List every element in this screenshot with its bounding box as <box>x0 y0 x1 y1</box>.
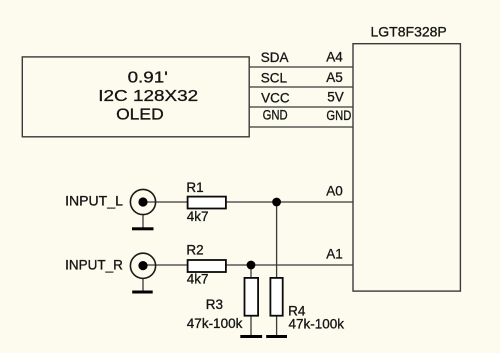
svg-text:A5: A5 <box>326 70 343 85</box>
svg-text:R1: R1 <box>186 180 203 195</box>
svg-text:SDA: SDA <box>261 50 289 65</box>
svg-text:LGT8F328P: LGT8F328P <box>371 24 447 40</box>
svg-text:5V: 5V <box>327 90 344 105</box>
svg-text:R2: R2 <box>186 243 203 258</box>
svg-text:VCC: VCC <box>261 90 290 105</box>
svg-text:GND: GND <box>326 108 351 123</box>
svg-text:INPUT_L: INPUT_L <box>65 194 123 209</box>
svg-text:A0: A0 <box>326 183 343 198</box>
svg-text:A1: A1 <box>326 247 343 262</box>
svg-text:47k-100k: 47k-100k <box>289 317 345 332</box>
svg-text:SCL: SCL <box>261 71 288 86</box>
svg-text:4k7: 4k7 <box>187 271 209 286</box>
svg-text:4k7: 4k7 <box>187 209 209 224</box>
svg-text:A4: A4 <box>326 50 343 65</box>
svg-text:OLED: OLED <box>116 107 164 124</box>
svg-text:INPUT_R: INPUT_R <box>65 257 123 272</box>
svg-text:R3: R3 <box>206 297 223 312</box>
svg-text:0.91': 0.91' <box>128 69 168 86</box>
svg-text:GND: GND <box>263 108 288 123</box>
svg-text:47k-100k: 47k-100k <box>187 316 243 331</box>
svg-text:I2C 128X32: I2C 128X32 <box>98 88 198 105</box>
